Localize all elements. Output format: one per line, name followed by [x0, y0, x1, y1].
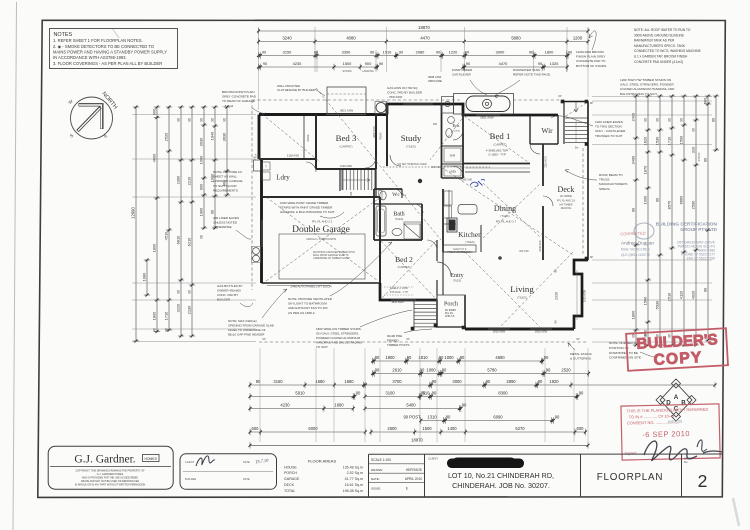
svg-text:UNLESS NOTED: UNLESS NOTED: [213, 221, 238, 225]
gas bottles: [253, 248, 260, 255]
scan artifact top-left: [112, 28, 119, 38]
svg-text:& 1 x GARDEN TAP. BROOM FINISH: & 1 x GARDEN TAP. BROOM FINISH: [634, 55, 688, 59]
svg-text:DRAWN:: DRAWN:: [371, 468, 383, 472]
svg-text:90: 90: [356, 391, 361, 396]
svg-text:600: 600: [151, 108, 156, 115]
svg-text:Wir: Wir: [541, 126, 553, 135]
svg-text:FLOOR AREAS: FLOOR AREAS: [308, 458, 337, 463]
svg-text:GAS HWS ON 700 SQ: GAS HWS ON 700 SQ: [387, 86, 418, 90]
svg-text:1000: 1000: [444, 355, 454, 360]
svg-text:HOMES: HOMES: [144, 457, 157, 461]
svg-text:1400: 1400: [447, 426, 457, 431]
svg-text:5910: 5910: [295, 391, 305, 396]
svg-text:(TILES): (TILES): [453, 280, 461, 283]
svg-text:18870: 18870: [411, 437, 423, 442]
svg-text:2890: 2890: [506, 379, 516, 384]
svg-text:DOWNPIPES TO BE: DOWNPIPES TO BE: [609, 351, 638, 355]
wc toilet: [380, 191, 386, 200]
notes box: [50, 29, 178, 69]
svg-text:A: A: [674, 394, 679, 401]
exterior walls: [259, 113, 387, 116]
garage stepdown slab: [279, 234, 365, 279]
svg-text:2210: 2210: [186, 176, 191, 185]
svg-text:GARAGE: GARAGE: [284, 477, 300, 481]
svg-text:1530: 1530: [654, 136, 659, 145]
svg-text:DP: DP: [262, 338, 266, 341]
svg-text:~ 8.2m2: ~ 8.2m2: [222, 104, 234, 108]
svg-text:1940: 1940: [209, 131, 214, 140]
deck stairs hatch: [565, 122, 588, 124]
svg-text:DP: DP: [590, 102, 594, 105]
red approval stamp: [621, 404, 720, 460]
svg-text:HANDRAIL & BALUSTRADING TO SUI: HANDRAIL & BALUSTRADING TO SUIT.: [280, 210, 335, 214]
svg-text:(TILES): (TILES): [406, 145, 416, 149]
svg-text:600: 600: [702, 97, 707, 104]
gj gardner logo box: [48, 446, 173, 489]
svg-text:LINEN: LINEN: [449, 171, 457, 174]
svg-text:90: 90: [579, 391, 584, 396]
svg-text:OWNER 450x600: OWNER 450x600: [217, 289, 241, 293]
svg-text:REQUIREMENTS.: REQUIREMENTS.: [213, 188, 239, 192]
svg-text:3220: 3220: [175, 303, 180, 312]
north arrow: [71, 97, 113, 139]
svg-text:NOTE: MAX 2420mm: NOTE: MAX 2420mm: [228, 319, 258, 323]
rainwater tank platform: [454, 94, 514, 115]
svg-text:PUMP UNDER: PUMP UNDER: [452, 68, 473, 72]
svg-text:DATE: DATE: [243, 477, 250, 481]
svg-text:2. ◉ - SMOKE DETECTORS TO: 2. ◉ - SMOKE DETECTORS TO BE CONNECTED T…: [53, 44, 155, 49]
svg-text:3900: 3900: [496, 50, 505, 55]
svg-text:FFL RL AHD 3.7: FFL RL AHD 3.7: [496, 220, 517, 224]
svg-text:5880: 5880: [511, 36, 521, 41]
svg-text:90: 90: [375, 368, 380, 373]
bottom extension lines: [259, 348, 261, 442]
svg-text:41.77 Sq.m: 41.77 Sq.m: [345, 477, 363, 481]
bottom dimension row 3: [250, 384, 365, 386]
svg-text:IN ACCORDANCE WITH AS3786-1993: IN ACCORDANCE WITH AS3786-1993.: [53, 55, 127, 60]
svg-text:90: 90: [199, 235, 203, 239]
svg-text:196.38 Sq.m: 196.38 Sq.m: [343, 489, 363, 493]
svg-text:90: 90: [554, 269, 558, 273]
svg-text:Bsc: Bsc: [402, 193, 407, 197]
svg-text:90: 90: [420, 368, 425, 373]
svg-text:FFL RL AHD 2.8: FFL RL AHD 2.8: [557, 200, 576, 203]
svg-text:Andrew Duggan: Andrew Duggan: [621, 241, 654, 246]
svg-text:600: 600: [577, 426, 585, 431]
svg-text:90: 90: [460, 355, 465, 360]
svg-text:UNDERSIDE OF TIMBER FLOOR: UNDERSIDE OF TIMBER FLOOR: [313, 257, 350, 260]
svg-text:1900: 1900: [198, 207, 203, 216]
svg-text:600: 600: [252, 426, 260, 431]
clothesline rect above garage: [327, 87, 366, 114]
svg-text:SHEET AS WALL: SHEET AS WALL: [213, 175, 238, 179]
svg-text:TRUSS: TRUSS: [599, 178, 610, 182]
svg-text:1815 ASW: 1815 ASW: [535, 330, 548, 334]
svg-text:900: 900: [198, 183, 203, 190]
svg-text:90 POST: 90 POST: [403, 415, 421, 420]
svg-text:90: 90: [176, 290, 180, 294]
svg-text:LOT 10, No.21 CHINDERAH RD,: LOT 10, No.21 CHINDERAH RD,: [448, 471, 554, 480]
svg-text:NOTES: NOTES: [54, 32, 73, 38]
svg-text:MANUFACTURER'S: MANUFACTURER'S: [599, 182, 627, 186]
svg-text:AHD 3.6: AHD 3.6: [445, 315, 455, 318]
svg-text:6210: 6210: [186, 237, 191, 246]
svg-text:6660: 6660: [678, 195, 683, 204]
svg-text:2590: 2590: [690, 200, 695, 209]
signature box: [180, 454, 277, 490]
svg-text:1680: 1680: [344, 379, 354, 384]
bottom dimension row 1: [373, 360, 543, 362]
svg-text:3000l ABOVE GROUND SLIMLINE: 3000l ABOVE GROUND SLIMLINE: [634, 33, 684, 37]
svg-text:1500: 1500: [422, 426, 432, 431]
svg-text:90: 90: [679, 118, 683, 122]
svg-text:4230: 4230: [280, 403, 290, 408]
right dimension chains: [635, 96, 637, 345]
svg-text:OPENING FROM GARAGE SLAB: OPENING FROM GARAGE SLAB: [228, 324, 274, 328]
svg-text:TIMBER POSTS: TIMBER POSTS: [387, 343, 409, 347]
svg-text:1800: 1800: [385, 355, 395, 360]
svg-text:12990: 12990: [130, 207, 135, 219]
svg-text:1680: 1680: [334, 403, 344, 408]
svg-text:DP: DP: [558, 95, 562, 98]
svg-text:(FL 90MM): (FL 90MM): [560, 195, 572, 198]
svg-text:ROOF BEAM TO: ROOF BEAM TO: [599, 173, 623, 177]
svg-text:CLIENT: CLIENT: [185, 460, 195, 464]
svg-text:3. FLOOR COVERINGS - AS PER PL: 3. FLOOR COVERINGS - AS PER PLAN ALL BY …: [53, 61, 162, 66]
svg-text:135.48 Sq.m: 135.48 Sq.m: [343, 465, 363, 469]
svg-text:GAS BOTTLES BY: GAS BOTTLES BY: [217, 284, 243, 288]
svg-text:LEVEL TO UNDERSIDE OF: LEVEL TO UNDERSIDE OF: [228, 328, 266, 332]
top extension verticals: [258, 27, 260, 72]
svg-text:-6 SEP 2010: -6 SEP 2010: [642, 429, 690, 439]
svg-text:REFER NOTE THIS PAGE.: REFER NOTE THIS PAGE.: [513, 73, 551, 77]
svg-text:1200: 1200: [573, 36, 583, 41]
svg-text:90: 90: [667, 118, 671, 122]
svg-text:G.J. GARDNER HOMES: G.J. GARDNER HOMES: [97, 473, 124, 476]
svg-text:2448 AUTO PANEL LIFT DOOR: 2448 AUTO PANEL LIFT DOOR: [290, 285, 331, 289]
svg-text:2500: 2500: [387, 426, 397, 431]
svg-text:Porch: Porch: [444, 302, 458, 308]
kitchen bench + fridge: [448, 190, 450, 224]
svg-text:3240: 3240: [282, 36, 292, 41]
window thin segments: [326, 114, 366, 116]
svg-text:OBSCURE: OBSCURE: [428, 79, 442, 83]
svg-text:& GUTTERING: & GUTTERING: [570, 357, 592, 361]
svg-text:ELECT CT &: ELECT CT &: [453, 249, 467, 251]
svg-text:1800 WIDE HW TIMBER STAIRS: 1800 WIDE HW TIMBER STAIRS: [316, 327, 361, 331]
svg-text:6090: 6090: [493, 415, 503, 420]
svg-text:900: 900: [365, 61, 372, 66]
svg-text:90: 90: [486, 379, 491, 384]
svg-text:2980: 2980: [416, 50, 425, 55]
bottom dimension row 6: [421, 420, 554, 422]
svg-text:8300: 8300: [498, 391, 508, 396]
svg-text:DP: DP: [406, 338, 410, 341]
svg-text:90: 90: [210, 118, 214, 122]
left extension lines: [132, 114, 256, 116]
svg-text:2390: 2390: [175, 175, 180, 184]
svg-text:STAIRS: STAIRS: [342, 69, 351, 73]
svg-text:DATE: DATE: [243, 460, 250, 464]
porch steps hatch: [414, 300, 437, 302]
svg-text:NSW, VIC ACCRED.: NSW, VIC ACCRED.: [621, 248, 651, 252]
svg-text:5400: 5400: [406, 403, 416, 408]
svg-text:PRIMED: PRIMED: [387, 339, 400, 343]
svg-text:FLOORPLAN: FLOORPLAN: [597, 472, 664, 483]
svg-text:1800: 1800: [545, 50, 554, 55]
svg-text:2142 ASD: 2142 ASD: [539, 240, 542, 251]
svg-text:1815 ASW: 1815 ASW: [493, 330, 506, 334]
svg-text:1870: 1870: [642, 165, 647, 174]
ens fixtures: [446, 129, 452, 138]
svg-text:4230: 4230: [293, 61, 302, 66]
svg-text:90: 90: [538, 379, 543, 384]
svg-text:(TILES): (TILES): [517, 296, 527, 300]
bottom dimension row 2: [373, 373, 589, 375]
svg-text:APRIL 2010: APRIL 2010: [405, 477, 422, 481]
svg-text:1200 HIGH HW TIMBER STAIRS ON: 1200 HIGH HW TIMBER STAIRS ON: [620, 78, 671, 82]
svg-text:TO THIS SECTION: TO THIS SECTION: [595, 125, 622, 129]
svg-text:Dining: Dining: [494, 204, 516, 213]
svg-text:90: 90: [555, 415, 560, 420]
svg-text:RAINWATER TANK —: RAINWATER TANK —: [513, 68, 545, 72]
svg-text:3630: 3630: [221, 132, 226, 141]
svg-text:2130: 2130: [186, 305, 191, 314]
svg-text:Ens: Ens: [453, 123, 460, 128]
svg-text:BOX: BOX: [255, 155, 260, 157]
svg-text:90: 90: [432, 379, 437, 384]
svg-text:GREY CONCRETE PAD: GREY CONCRETE PAD: [222, 95, 257, 99]
svg-text:1200mm STEPDOWN: 1200mm STEPDOWN: [306, 237, 336, 241]
top dimension chain row 3: [259, 55, 569, 57]
blue pen mark: [470, 179, 485, 186]
svg-text:2: 2: [698, 471, 708, 491]
svg-text:1800 SSD: 1800 SSD: [373, 126, 376, 138]
left dimension chains: [135, 107, 137, 341]
svg-text:Living: Living: [510, 284, 534, 294]
svg-text:1920: 1920: [549, 379, 559, 384]
svg-text:2.52 Sq.m: 2.52 Sq.m: [347, 471, 363, 475]
svg-text:SHR: SHR: [450, 154, 456, 158]
svg-text:2330: 2330: [555, 292, 559, 300]
builders copy stamp: [626, 328, 728, 371]
sheet cell: [681, 454, 683, 497]
svg-text:PORCH: PORCH: [284, 471, 297, 475]
svg-text:4020: 4020: [690, 290, 695, 299]
svg-text:FFL RL AHD 2.3: FFL RL AHD 2.3: [312, 220, 333, 224]
svg-text:CONC. PAD BY: CONC. PAD BY: [217, 293, 238, 297]
svg-text:CONCRETE PAD UNDER (4.1m2): CONCRETE PAD UNDER (4.1m2): [634, 60, 683, 64]
svg-text:No.: No.: [684, 460, 689, 464]
svg-text:90: 90: [375, 355, 380, 360]
svg-text:LINING OF GARAGE: LINING OF GARAGE: [213, 179, 243, 183]
svg-text:90: 90: [432, 391, 437, 396]
svg-text:4690: 4690: [495, 355, 505, 360]
svg-text:1310: 1310: [427, 415, 437, 420]
signature scribble: [644, 441, 723, 461]
svg-text:0821 ASW: 0821 ASW: [340, 109, 354, 113]
roof / eave dashed lines: [252, 99, 460, 101]
svg-text:RAINWATER TANK AS PER: RAINWATER TANK AS PER: [634, 39, 675, 43]
deck stairs landing: [565, 117, 588, 119]
meter box: [254, 160, 261, 171]
svg-text:TRUSSES TO SUIT: TRUSSES TO SUIT: [595, 134, 623, 138]
svg-text:1710: 1710: [666, 136, 671, 145]
svg-text:4470: 4470: [499, 61, 508, 66]
svg-text:CONC. PAD BY BUILDER: CONC. PAD BY BUILDER: [387, 90, 423, 94]
svg-text:Double Garage: Double Garage: [292, 225, 350, 235]
svg-text:ROBE: ROBE: [307, 134, 310, 141]
svg-text:Study: Study: [401, 133, 422, 143]
svg-text:ON GALV. STEEL STRINGERS,: ON GALV. STEEL STRINGERS,: [316, 332, 359, 336]
scale table: [368, 454, 370, 496]
svg-text:DECK: DECK: [284, 483, 295, 487]
svg-text:2115 ASD: 2115 ASD: [545, 156, 548, 167]
svg-text:TOTAL: TOTAL: [284, 489, 295, 493]
svg-text:DP: DP: [576, 338, 580, 341]
svg-text:1000 WIDE PAINT GRADE TIMBER: 1000 WIDE PAINT GRADE TIMBER: [280, 201, 329, 205]
svg-text:8403(20): 8403(20): [668, 419, 683, 424]
sq set opening dashed: [383, 166, 490, 168]
bath fixtures: [376, 206, 386, 236]
svg-text:3150: 3150: [273, 379, 283, 384]
svg-text:BALUSTRADING TO SUIT.: BALUSTRADING TO SUIT.: [620, 92, 658, 96]
svg-text:1500: 1500: [678, 135, 683, 144]
svg-text:Wc: Wc: [392, 192, 400, 198]
svg-text:CANTILEVER: CANTILEVER: [452, 72, 472, 76]
svg-text:⊙ 1650 - TYP: ⊙ 1650 - TYP: [488, 153, 506, 157]
svg-text:BOTTOM OF STAIRS.: BOTTOM OF STAIRS.: [576, 64, 607, 68]
svg-text:CONFIRMED ON SITE: CONFIRMED ON SITE: [609, 356, 641, 360]
svg-text:Deck: Deck: [558, 185, 575, 194]
bottom dimension row 7: [250, 431, 365, 433]
svg-text:0821 ASW: 0821 ASW: [480, 116, 494, 120]
svg-text:1510: 1510: [383, 50, 392, 55]
svg-text:3700: 3700: [392, 379, 402, 384]
svg-text:CHINDERAH. JOB No. 30207.: CHINDERAH. JOB No. 30207.: [452, 481, 550, 490]
svg-text:COATED ALUMINIUM HANDRAIL AND: COATED ALUMINIUM HANDRAIL AND: [620, 87, 675, 91]
svg-text:4470: 4470: [420, 36, 430, 41]
svg-text:1800: 1800: [630, 310, 635, 319]
svg-text:B: B: [681, 400, 686, 407]
svg-text:2520: 2520: [561, 368, 571, 373]
svg-text:90: 90: [691, 128, 695, 132]
svg-text:IN WHOLE OR IN ANY PART WITHOU: IN WHOLE OR IN ANY PART WITHOUT WRITTEN …: [75, 484, 146, 487]
svg-text:90: 90: [187, 118, 191, 122]
svg-text:2520: 2520: [163, 132, 168, 141]
svg-text:(TILES): (TILES): [466, 240, 475, 244]
svg-text:Bed 2: Bed 2: [395, 255, 413, 264]
internal stairs hatch: [342, 170, 344, 190]
svg-text:SCALE 1:100: SCALE 1:100: [371, 458, 391, 462]
svg-text:90: 90: [546, 368, 551, 373]
svg-text:1680: 1680: [315, 379, 325, 384]
svg-text:GALV. STEEL STRINGERS, POWDER: GALV. STEEL STRINGERS, POWDER: [620, 83, 674, 87]
svg-text:1800: 1800: [151, 311, 156, 320]
svg-text:TO SUIT FLOOD: TO SUIT FLOOD: [213, 184, 237, 188]
svg-text:6810: 6810: [175, 235, 180, 244]
svg-text:CONCRETE PAD TO: CONCRETE PAD TO: [576, 59, 606, 63]
svg-text:3490: 3490: [630, 155, 635, 164]
svg-text:(CARPET): (CARPET): [493, 143, 506, 147]
svg-text:3030: 3030: [198, 137, 203, 146]
svg-text:Kitchen: Kitchen: [458, 230, 482, 239]
svg-text:1000: 1000: [350, 191, 353, 197]
svg-text:1000: 1000: [642, 195, 647, 204]
svg-text:1220: 1220: [449, 50, 458, 55]
svg-text:CLOTHESLINE BY BUILDER: CLOTHESLINE BY BUILDER: [277, 88, 315, 92]
svg-text:820 CSD: 820 CSD: [519, 251, 529, 253]
svg-text:3150: 3150: [283, 50, 292, 55]
svg-text:CLIENT:: CLIENT:: [428, 457, 439, 461]
svg-text:ROBE: ROBE: [380, 132, 383, 139]
svg-text:1000: 1000: [198, 155, 203, 164]
svg-text:(CARPET): (CARPET): [398, 265, 411, 269]
svg-text:COPY: COPY: [653, 349, 703, 369]
svg-text:CONNECTED TO WC'S, WASHING MAC: CONNECTED TO WC'S, WASHING MACHINE: [634, 49, 701, 53]
svg-text:1000 ASW: 1000 ASW: [340, 165, 352, 168]
svg-text:NOTE: PROVIDE VENTILATED: NOTE: PROVIDE VENTILATED: [288, 297, 333, 301]
DAB diamond logo: [656, 379, 696, 421]
svg-text:4110: 4110: [678, 290, 683, 299]
svg-text:HOUSE: HOUSE: [284, 465, 297, 469]
svg-text:(TILES): (TILES): [452, 131, 460, 133]
svg-text:TO IN # ............ C# 10-: TO IN # ............ C# 10-47: [629, 413, 676, 419]
svg-text:4510: 4510: [163, 231, 168, 240]
svg-text:TO REAR OF GARAGE: TO REAR OF GARAGE: [222, 99, 255, 103]
garage door: [267, 282, 330, 284]
svg-text:AS PER AS 1668.2.: AS PER AS 1668.2.: [288, 311, 315, 315]
svg-text:6000: 6000: [308, 426, 318, 431]
svg-text:1000: 1000: [426, 368, 436, 373]
svg-text:POWDER COATED ALUMINIUM: POWDER COATED ALUMINIUM: [316, 336, 361, 340]
client signature scribble: [196, 456, 215, 466]
svg-text:1. REFER SHEET 1 FOR FLOORPLA: 1. REFER SHEET 1 FOR FLOORPLAN NOTES.: [53, 38, 143, 43]
bottom dimension row 5: [250, 408, 353, 410]
svg-text:Bath: Bath: [393, 212, 404, 218]
svg-text:90: 90: [439, 355, 444, 360]
svg-text:85x10 OAP PINE HEADER: 85x10 OAP PINE HEADER: [228, 333, 265, 337]
bed1 robe detail: [465, 167, 530, 169]
svg-text:SQ SET OPENING OVER: SQ SET OPENING OVER: [397, 163, 426, 166]
redacted name: [447, 459, 524, 469]
roof diagonals dashed: [266, 197, 378, 281]
svg-text:QLD QBSA 1105732: QLD QBSA 1105732: [621, 253, 650, 257]
svg-text:ABOVE AND MAY NOT BE USED OR R: ABOVE AND MAY NOT BE USED OR REPRODUCED: [81, 480, 139, 483]
svg-text:SHELF ⊙ 1650: SHELF ⊙ 1650: [390, 286, 408, 290]
kitchen island: [458, 205, 477, 215]
svg-text:(TILES): (TILES): [395, 218, 403, 221]
top dimension chain row 4 right: [463, 66, 567, 68]
svg-text:1200 LINED EAVES: 1200 LINED EAVES: [595, 120, 623, 124]
svg-text:FAX 07 5523 2799: FAX 07 5523 2799: [687, 257, 715, 261]
svg-text:Bed 3: Bed 3: [336, 133, 357, 143]
interior walls: [315, 115, 317, 170]
svg-text:8570: 8570: [666, 200, 671, 209]
svg-text:Signed: Signed: [624, 451, 636, 455]
svg-text:COPYRIGHT. THIS DRAWINGS REMA: COPYRIGHT. THIS DRAWINGS REMAINS THE PRO…: [75, 469, 145, 472]
svg-text:510: 510: [423, 391, 431, 396]
svg-text:Entry: Entry: [450, 273, 463, 279]
svg-text:400 LINED EAVES: 400 LINED EAVES: [213, 216, 239, 220]
right extension lines: [592, 96, 712, 98]
svg-text:Dn: Dn: [575, 146, 579, 150]
svg-text:90: 90: [631, 334, 635, 338]
top dimension chain row 2: [259, 41, 589, 43]
svg-text:1500: 1500: [343, 61, 352, 66]
svg-text:1320: 1320: [550, 61, 559, 66]
svg-text:LANDING: LANDING: [362, 69, 374, 73]
